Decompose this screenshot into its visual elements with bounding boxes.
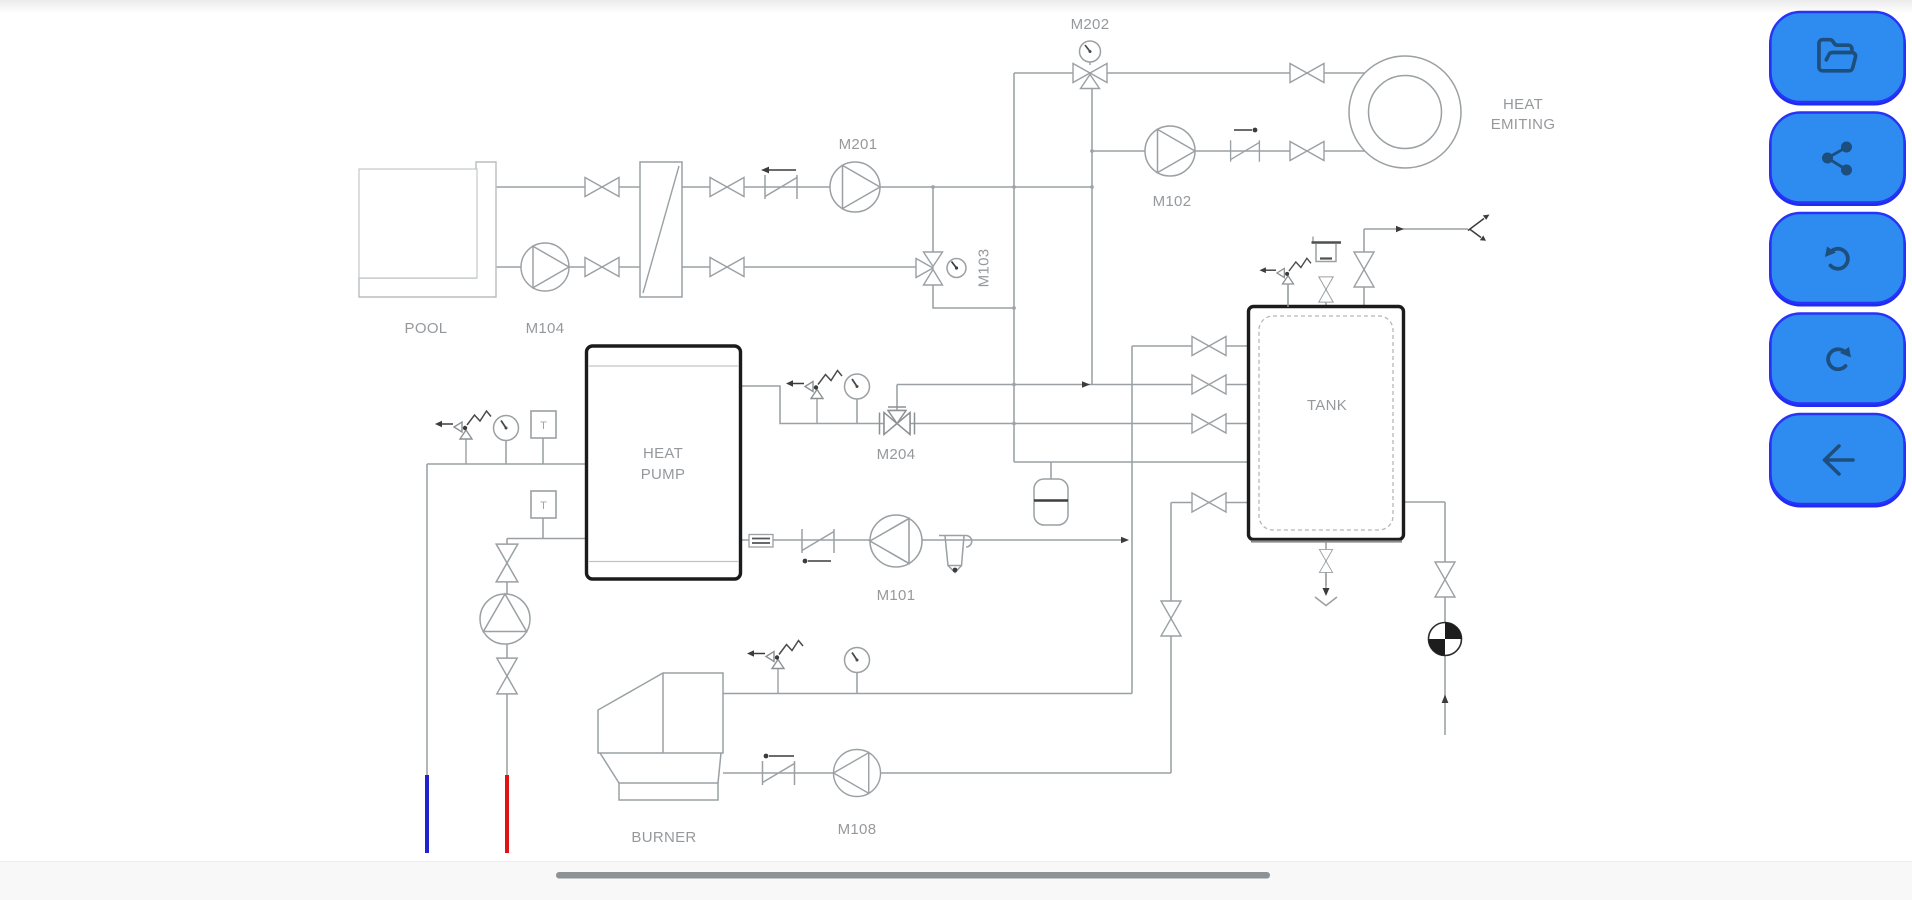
- toolbar button: open file: [1771, 12, 1905, 104]
- wire: sensor T1 stem: [542, 438, 544, 464]
- safety valve SV2 (tank top): [1259, 258, 1311, 307]
- toolbar button: undo: [1771, 213, 1905, 305]
- temperature sensor T2: [531, 491, 556, 518]
- wire: tank air-vent stem: [1325, 277, 1327, 305]
- wire: heat-exchanger to M103: [682, 266, 916, 268]
- wire: gauge stem M204 line: [856, 399, 858, 424]
- balancing indicator tank right: [1429, 623, 1462, 656]
- valve V11 vent stem small: [1319, 277, 1333, 302]
- wire: source return header: [507, 538, 585, 540]
- flow arrow riser x1092 into tank row: [1082, 381, 1090, 387]
- burner body: [598, 673, 723, 800]
- tank valve V8 middle row: [1192, 375, 1226, 394]
- flow tag CV2: [1234, 128, 1257, 133]
- wire: cold source header: [427, 463, 585, 465]
- mixing valve M204: [880, 407, 915, 435]
- wire: M202 to heat emitter: [1107, 72, 1365, 74]
- junction node x1014/y423.5: [1012, 422, 1016, 426]
- wire: tank top row: [1132, 345, 1247, 347]
- wire: pool supply top: [496, 186, 640, 188]
- valve V12 tank top right: [1354, 252, 1374, 287]
- valve V1 pool top: [585, 178, 619, 197]
- valve V13 tank right column: [1435, 562, 1455, 597]
- pump M108: [834, 750, 881, 797]
- wire: heat pump flow to M204 and tank: [742, 386, 1247, 424]
- wire: burner flow top: [723, 693, 1132, 695]
- 3-way valve M103: [916, 252, 966, 285]
- valve V3 pool bottom: [585, 258, 619, 277]
- svg-text:M102: M102: [1153, 193, 1192, 210]
- valve V5 emitter supply: [1290, 64, 1324, 83]
- valve V14 burner riser: [1161, 601, 1181, 636]
- strainer F1: [939, 536, 972, 573]
- pressure gauge G2 (source header): [494, 416, 519, 441]
- svg-text:M104: M104: [526, 320, 565, 337]
- junction node x1092/y151: [1090, 149, 1094, 153]
- wire: burner return bottom: [723, 772, 1171, 774]
- svg-text:POOL: POOL: [405, 320, 448, 337]
- svg-text:M204: M204: [877, 446, 916, 463]
- tank drain outlet arrow: [1315, 572, 1337, 606]
- wire: pool return bottom: [496, 266, 640, 268]
- wire: tank top-right stem: [1363, 229, 1365, 305]
- flow arrow CV1: [761, 167, 796, 174]
- valve V16 source column lower: [497, 658, 517, 694]
- svg-text:M201: M201: [839, 136, 878, 153]
- wire: gauge stem burner line: [856, 672, 858, 694]
- check valve CV3 M101 line: [802, 529, 834, 553]
- tank valve V9 third row: [1192, 414, 1226, 433]
- heat pump unit: [587, 346, 741, 579]
- wire: M102 branch to emitter: [1092, 150, 1366, 152]
- flow arrow into burner riser: [1121, 537, 1129, 543]
- tank valve V10 lower row: [1192, 493, 1226, 512]
- top shading strip: [0, 0, 1912, 13]
- junction node x933/y187: [931, 185, 935, 189]
- heat emitter coil: [1349, 56, 1461, 168]
- svg-text:HEAT: HEAT: [643, 445, 683, 462]
- valve V6 emitter return: [1290, 142, 1324, 161]
- flow tag CV4: [764, 754, 794, 759]
- wire: sensor T2 stem: [542, 517, 544, 539]
- flow arrow up right column: [1442, 695, 1449, 704]
- toolbar button: back: [1771, 414, 1905, 506]
- pressure gauge G3 (burner line): [845, 648, 870, 673]
- svg-text:TANK: TANK: [1307, 397, 1347, 414]
- pump M201: [830, 162, 880, 212]
- tank valve V7 top row: [1192, 337, 1226, 356]
- wire: M103 top port riser: [932, 187, 934, 252]
- vent outlet fork: [1468, 215, 1490, 241]
- temperature sensor T1: [531, 411, 556, 438]
- pressure gauge G1 (M204 line): [845, 374, 870, 399]
- valve V4 exchanger bottom: [710, 258, 744, 277]
- expansion vessel: [1034, 479, 1068, 525]
- wire: main riser x1014: [1013, 73, 1015, 462]
- safety valve SV4 (burner line): [747, 641, 803, 694]
- flow arrow vent line: [1396, 226, 1404, 232]
- wire: expansion vessel stem: [1050, 462, 1052, 479]
- toolbar button: redo: [1771, 314, 1905, 406]
- tank vessel: [1249, 307, 1404, 542]
- wire: M204 top stub: [896, 385, 898, 411]
- wire: burner riser x1132: [1131, 346, 1133, 694]
- wire: tank lower-left row: [1171, 502, 1247, 504]
- wire: cold source downpipe: [426, 464, 428, 775]
- wire: heat-exchanger to M201 to riser: [682, 186, 1092, 188]
- blue supply line: [425, 775, 429, 853]
- wire: gauge stem left: [505, 440, 507, 464]
- pump M102: [1145, 126, 1195, 176]
- check valve CV1 pool line: [765, 175, 797, 199]
- wire: tank middle row from M204 top: [897, 384, 1247, 386]
- flow tag CV3: [803, 559, 831, 564]
- svg-text:BURNER: BURNER: [631, 829, 696, 846]
- wire: burner riser x1171: [1170, 503, 1172, 774]
- svg-text:M202: M202: [1071, 16, 1110, 33]
- pump M101: [870, 515, 922, 567]
- safety valve SV3 (source header): [435, 411, 491, 464]
- wire: heat pump return M101: [742, 539, 1125, 541]
- source pump P1: [480, 594, 530, 644]
- pump M104: [521, 243, 569, 291]
- flexible connector heat pump return: [749, 535, 773, 548]
- svg-text:PUMP: PUMP: [641, 466, 686, 483]
- tank drain valve small: [1319, 549, 1332, 572]
- junction node x1014/y308: [1012, 306, 1016, 310]
- wire: tank drain stem: [1325, 541, 1327, 586]
- wire: riser x1092: [1091, 89, 1093, 385]
- junction node x1014/y384.5: [1012, 383, 1016, 387]
- junction node x1092/y187: [1090, 185, 1094, 189]
- pool water inner rect: [359, 169, 477, 278]
- svg-text:M108: M108: [838, 821, 877, 838]
- red return line: [505, 775, 509, 853]
- wire: M202 left branch: [1014, 72, 1073, 74]
- check valve CV4 burner return: [763, 761, 795, 785]
- svg-text:HEAT: HEAT: [1503, 96, 1543, 113]
- bottom page band: [0, 862, 1912, 900]
- wire: expansion line to tank: [1014, 461, 1247, 463]
- check valve CV2 M102 line: [1231, 140, 1260, 162]
- wire: source pump column: [506, 539, 508, 776]
- wire: tank vent line: [1364, 228, 1468, 230]
- heat exchanger E1: [640, 162, 682, 297]
- valve V15 source column upper: [496, 544, 518, 582]
- valve V2 exchanger top: [710, 178, 744, 197]
- pool basin walls: [359, 162, 496, 297]
- scrollbar: [556, 872, 1270, 879]
- junction node x1014/y187: [1012, 185, 1016, 189]
- wire: tank top-left stem: [1287, 285, 1289, 305]
- svg-text:M103: M103: [976, 249, 993, 288]
- svg-text:EMITING: EMITING: [1491, 116, 1556, 133]
- svg-text:M101: M101: [877, 587, 916, 604]
- air vent pot on tank: [1312, 237, 1342, 262]
- toolbar button: share: [1771, 113, 1905, 205]
- wire: M103 bottom jog: [933, 285, 1014, 308]
- 3-way valve M202: [1073, 41, 1107, 89]
- safety valve SV1 (heat pump line): [786, 371, 842, 424]
- wire: tank right outlet: [1405, 502, 1445, 735]
